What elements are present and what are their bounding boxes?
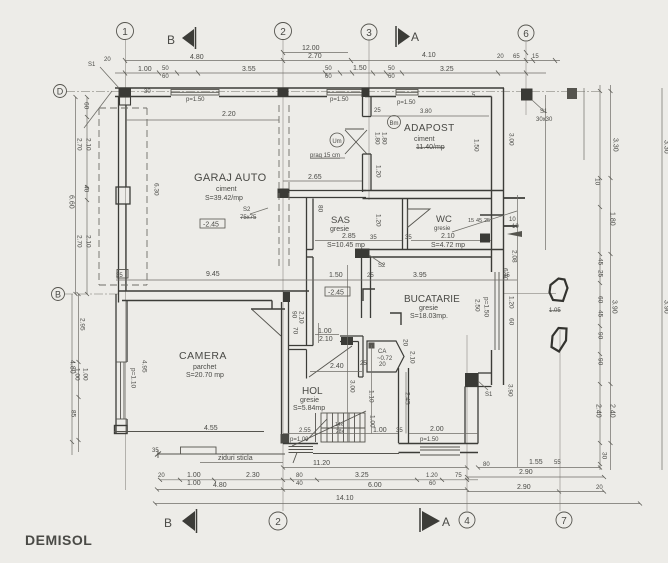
svg-text:35: 35 xyxy=(152,448,159,454)
svg-text:p=1.00: p=1.00 xyxy=(290,437,309,443)
svg-text:28x: 28x xyxy=(336,429,345,435)
svg-text:S=18.03mp.: S=18.03mp. xyxy=(410,313,448,320)
svg-text:40: 40 xyxy=(296,481,303,487)
svg-text:2.40: 2.40 xyxy=(595,404,602,418)
svg-text:B: B xyxy=(55,290,61,300)
svg-text:HOL: HOL xyxy=(302,386,323,397)
svg-text:65: 65 xyxy=(513,54,520,60)
svg-text:S=5.84mp: S=5.84mp xyxy=(293,405,325,412)
svg-text:1.00: 1.00 xyxy=(373,427,387,434)
svg-text:D: D xyxy=(57,87,64,97)
svg-text:20: 20 xyxy=(402,339,409,347)
svg-text:p=1.50: p=1.50 xyxy=(483,297,490,317)
svg-text:S1: S1 xyxy=(485,392,493,398)
svg-text:25: 25 xyxy=(367,273,374,279)
svg-text:p=1.50: p=1.50 xyxy=(397,100,416,106)
svg-text:4.80: 4.80 xyxy=(190,54,204,61)
svg-text:S1: S1 xyxy=(88,62,96,68)
svg-text:6.30: 6.30 xyxy=(153,183,160,196)
svg-text:35: 35 xyxy=(370,235,377,241)
svg-text:2.70: 2.70 xyxy=(308,53,322,60)
svg-text:60: 60 xyxy=(162,74,169,80)
svg-text:2.30: 2.30 xyxy=(246,472,260,479)
svg-text:4.10: 4.10 xyxy=(422,52,436,59)
svg-text:2.90: 2.90 xyxy=(517,484,531,491)
svg-text:2.70: 2.70 xyxy=(76,235,83,248)
svg-text:p=1.50: p=1.50 xyxy=(420,437,439,443)
svg-text:20: 20 xyxy=(379,362,386,368)
svg-text:S=4.72 mp: S=4.72 mp xyxy=(431,242,465,249)
svg-text:gresie: gresie xyxy=(300,397,319,404)
svg-text:3.95: 3.95 xyxy=(413,272,427,279)
svg-text:2.00: 2.00 xyxy=(430,426,444,433)
svg-text:-2.45: -2.45 xyxy=(328,290,344,297)
svg-text:30: 30 xyxy=(601,452,608,460)
svg-text:75x75: 75x75 xyxy=(240,215,257,221)
svg-text:2.20: 2.20 xyxy=(222,111,236,118)
svg-text:80: 80 xyxy=(317,205,324,213)
svg-text:2.65: 2.65 xyxy=(308,174,322,181)
svg-text:35: 35 xyxy=(405,235,412,241)
svg-text:B: B xyxy=(167,33,175,47)
svg-text:p=1.10: p=1.10 xyxy=(130,368,137,388)
svg-text:4.55: 4.55 xyxy=(204,425,218,432)
svg-text:1.00: 1.00 xyxy=(82,368,89,381)
svg-text:3.80: 3.80 xyxy=(420,109,432,115)
svg-text:40: 40 xyxy=(83,185,90,193)
svg-text:1.00: 1.00 xyxy=(187,472,201,479)
svg-text:CA: CA xyxy=(378,349,386,355)
svg-text:35: 35 xyxy=(116,273,123,279)
svg-text:3.55: 3.55 xyxy=(242,66,256,73)
svg-text:3.30: 3.30 xyxy=(663,140,668,154)
svg-text:3.25: 3.25 xyxy=(440,66,454,73)
svg-text:GARAJ AUTO: GARAJ AUTO xyxy=(194,172,267,184)
svg-text:14x: 14x xyxy=(335,422,344,428)
svg-text:1.50: 1.50 xyxy=(353,65,367,72)
svg-text:70: 70 xyxy=(292,327,299,335)
svg-text:1.80: 1.80 xyxy=(609,212,616,226)
svg-text:A: A xyxy=(442,515,450,529)
svg-text:ciment: ciment xyxy=(414,136,435,143)
svg-text:2: 2 xyxy=(280,27,286,38)
svg-text:12.00: 12.00 xyxy=(302,45,320,52)
svg-text:S1: S1 xyxy=(540,109,548,115)
svg-text:2.10: 2.10 xyxy=(441,233,455,240)
svg-text:6.60: 6.60 xyxy=(68,195,75,209)
svg-text:6.10: 6.10 xyxy=(502,268,509,281)
svg-text:1.20: 1.20 xyxy=(375,214,382,227)
svg-text:3.90: 3.90 xyxy=(663,300,668,314)
svg-text:2.10: 2.10 xyxy=(319,336,333,343)
svg-text:80: 80 xyxy=(483,462,490,468)
svg-text:10: 10 xyxy=(509,217,516,223)
svg-text:4: 4 xyxy=(464,516,470,527)
svg-text:3: 3 xyxy=(366,28,372,39)
svg-text:ciment: ciment xyxy=(216,186,237,193)
svg-text:2.95: 2.95 xyxy=(79,318,86,331)
svg-text:20: 20 xyxy=(497,54,504,60)
svg-text:WC: WC xyxy=(436,214,452,225)
svg-text:2.45: 2.45 xyxy=(404,392,411,405)
svg-text:90: 90 xyxy=(597,332,604,340)
svg-text:80: 80 xyxy=(296,473,303,479)
svg-text:S=10.45 mp: S=10.45 mp xyxy=(327,242,365,249)
svg-text:CAMERA: CAMERA xyxy=(179,350,227,362)
svg-text:2.40: 2.40 xyxy=(330,363,344,370)
svg-text:2.70: 2.70 xyxy=(76,138,83,151)
svg-text:1.50: 1.50 xyxy=(329,272,343,279)
svg-text:7: 7 xyxy=(561,516,567,527)
svg-text:p=1.50: p=1.50 xyxy=(330,97,349,103)
svg-text:20: 20 xyxy=(158,473,165,479)
svg-text:3.90: 3.90 xyxy=(507,384,514,397)
svg-text:55: 55 xyxy=(554,460,561,466)
svg-text:S=20.70 mp: S=20.70 mp xyxy=(186,372,224,379)
svg-text:1: 1 xyxy=(122,27,128,38)
svg-text:1.55: 1.55 xyxy=(529,459,543,466)
svg-text:15: 15 xyxy=(532,54,539,60)
svg-text:Um: Um xyxy=(332,139,341,145)
svg-text:90: 90 xyxy=(597,358,604,366)
svg-text:45: 45 xyxy=(597,310,604,318)
svg-text:35: 35 xyxy=(396,428,403,434)
svg-text:6: 6 xyxy=(523,29,529,40)
svg-text:DEMISOL: DEMISOL xyxy=(25,532,92,548)
svg-text:50: 50 xyxy=(162,66,169,72)
svg-text:9.45: 9.45 xyxy=(206,271,220,278)
svg-text:gresie: gresie xyxy=(419,305,438,312)
svg-text:S2: S2 xyxy=(243,207,251,213)
svg-text:1.00: 1.00 xyxy=(187,480,201,487)
svg-text:1.80: 1.80 xyxy=(381,132,388,145)
svg-text:50: 50 xyxy=(388,66,395,72)
svg-text:S=39.42/mp: S=39.42/mp xyxy=(205,195,243,202)
svg-text:2.08: 2.08 xyxy=(511,250,518,263)
svg-text:1.20: 1.20 xyxy=(375,165,382,178)
svg-text:10: 10 xyxy=(594,178,601,186)
svg-text:30: 30 xyxy=(144,89,151,95)
svg-text:BUCATARIE: BUCATARIE xyxy=(404,294,460,305)
svg-text:4.80: 4.80 xyxy=(213,482,227,489)
svg-text:1.00: 1.00 xyxy=(318,328,332,335)
svg-text:4.80: 4.80 xyxy=(69,360,76,374)
svg-text:gresie: gresie xyxy=(434,226,451,232)
svg-text:Bm: Bm xyxy=(390,121,399,127)
svg-text:3.00: 3.00 xyxy=(349,380,356,393)
svg-text:-2.45: -2.45 xyxy=(203,222,219,229)
svg-text:2.90: 2.90 xyxy=(519,469,533,476)
svg-text:1.00: 1.00 xyxy=(369,415,376,428)
svg-text:B: B xyxy=(164,516,172,530)
svg-text:60: 60 xyxy=(508,318,515,326)
svg-text:3.25: 3.25 xyxy=(355,472,369,479)
svg-text:2.50: 2.50 xyxy=(474,299,481,312)
svg-text:ziduri sticla: ziduri sticla xyxy=(218,455,253,462)
svg-text:2: 2 xyxy=(275,517,281,528)
svg-text:1.20: 1.20 xyxy=(508,296,515,309)
svg-text:4.95: 4.95 xyxy=(141,360,148,373)
svg-text:20: 20 xyxy=(104,57,111,63)
svg-text:85: 85 xyxy=(70,410,77,418)
svg-text:1.05: 1.05 xyxy=(549,308,561,314)
svg-text:1.80: 1.80 xyxy=(374,132,381,145)
svg-text:60: 60 xyxy=(388,74,395,80)
svg-text:90: 90 xyxy=(291,311,298,319)
svg-text:60: 60 xyxy=(429,481,436,487)
svg-text:60: 60 xyxy=(83,102,90,110)
svg-text:ADAPOST: ADAPOST xyxy=(404,123,455,134)
svg-text:20: 20 xyxy=(596,485,603,491)
svg-text:50: 50 xyxy=(325,66,332,72)
svg-text:gresie: gresie xyxy=(330,226,349,233)
svg-text:2.10: 2.10 xyxy=(85,235,92,248)
svg-text:30x30: 30x30 xyxy=(536,117,553,123)
svg-text:3.30: 3.30 xyxy=(612,138,619,152)
svg-text:1.00: 1.00 xyxy=(138,66,152,73)
svg-text:60: 60 xyxy=(597,296,604,304)
svg-text:2.55: 2.55 xyxy=(299,428,311,434)
svg-text:11.40/mp: 11.40/mp xyxy=(416,144,445,151)
svg-text:15: 15 xyxy=(468,218,474,224)
svg-text:25: 25 xyxy=(374,108,381,114)
svg-text:14.10: 14.10 xyxy=(336,495,354,502)
svg-text:25: 25 xyxy=(597,270,604,278)
svg-text:p=1.50: p=1.50 xyxy=(186,97,205,103)
svg-text:2.10: 2.10 xyxy=(298,311,305,324)
svg-text:75: 75 xyxy=(455,473,462,479)
svg-text:2.85: 2.85 xyxy=(342,233,356,240)
svg-text:11.20: 11.20 xyxy=(313,460,330,467)
svg-text:1.20: 1.20 xyxy=(426,473,438,479)
svg-text:2.10: 2.10 xyxy=(409,351,416,364)
svg-text:1.50: 1.50 xyxy=(473,139,480,152)
svg-text:60: 60 xyxy=(325,74,332,80)
svg-text:45: 45 xyxy=(597,258,604,266)
svg-text:3.00: 3.00 xyxy=(508,133,515,146)
svg-text:2.10: 2.10 xyxy=(85,138,92,151)
svg-text:3.90: 3.90 xyxy=(611,300,618,314)
svg-text:A: A xyxy=(411,30,419,44)
svg-text:10: 10 xyxy=(512,224,519,230)
svg-text:SAS: SAS xyxy=(331,215,350,226)
svg-text:2.40: 2.40 xyxy=(609,404,616,418)
svg-text:parchet: parchet xyxy=(193,364,216,371)
svg-text:25: 25 xyxy=(360,361,367,367)
svg-text:1.10: 1.10 xyxy=(368,390,375,403)
svg-text:6.00: 6.00 xyxy=(368,482,382,489)
